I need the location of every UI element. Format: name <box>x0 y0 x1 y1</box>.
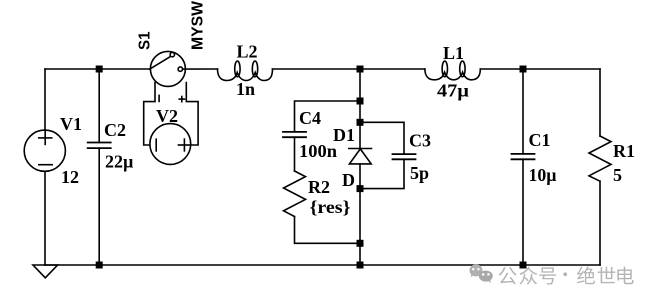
inductor L1 <box>425 69 480 80</box>
wire V1 top <box>44 69 46 130</box>
switch body pedestal <box>144 83 198 146</box>
wire bottom rail <box>45 264 600 266</box>
svg-text:{res}: {res} <box>310 197 351 217</box>
wire C4 branch top <box>295 101 361 132</box>
svg-text:V1: V1 <box>60 114 82 134</box>
capacitor C4 <box>283 132 306 137</box>
switch plus pin mark <box>179 98 184 100</box>
svg-text:C4: C4 <box>299 108 321 128</box>
wire R1 bottom <box>599 181 601 265</box>
inductor L2 <box>218 69 273 81</box>
ground <box>33 265 58 278</box>
svg-text:D: D <box>342 170 355 190</box>
svg-text:MYSW: MYSW <box>190 0 207 50</box>
svg-text:R2: R2 <box>308 177 330 197</box>
svg-text:V2: V2 <box>156 106 178 126</box>
svg-text:5p: 5p <box>410 163 429 183</box>
switch S1 <box>150 51 185 86</box>
svg-text:12: 12 <box>61 167 79 187</box>
svg-text:5: 5 <box>613 165 622 185</box>
wire C3 bottom branch <box>360 159 404 188</box>
svg-text:22µ: 22µ <box>105 152 134 172</box>
voltage source V1 <box>24 130 65 171</box>
wire C1 bottom <box>522 159 524 265</box>
svg-text:L1: L1 <box>443 43 464 63</box>
wire L1 to right corner <box>480 68 600 70</box>
wire mid vertical lower <box>359 164 361 265</box>
diode D1 <box>349 148 372 150</box>
switch minus pin mark <box>158 95 160 101</box>
wire R2 bottom branch <box>295 217 361 244</box>
svg-text:R1: R1 <box>613 141 635 161</box>
svg-text:47µ: 47µ <box>437 81 470 101</box>
capacitor C1 <box>512 154 535 159</box>
wire top rail left <box>45 68 150 70</box>
svg-text:1n: 1n <box>236 79 255 99</box>
wire C1 top <box>522 69 524 154</box>
svg-text:L2: L2 <box>237 42 258 62</box>
svg-text:C1: C1 <box>529 130 551 150</box>
svg-text:100n: 100n <box>299 141 337 161</box>
wire C4 to R2 <box>294 137 296 171</box>
svg-text:S1: S1 <box>137 31 154 50</box>
wire V1 bottom <box>44 172 46 265</box>
svg-text:10µ: 10µ <box>529 165 558 185</box>
svg-text:D1: D1 <box>333 125 355 145</box>
wire switch to L2 <box>183 68 218 70</box>
wire mid vertical upper <box>359 69 361 148</box>
wire C2 bottom <box>98 148 100 265</box>
wire L2 to L1 <box>273 68 425 70</box>
wire right drop to R1 <box>599 69 601 136</box>
resistor R2 <box>284 171 306 217</box>
watermark wechat icon <box>469 264 482 277</box>
svg-text:C3: C3 <box>409 131 431 151</box>
capacitor C3 <box>393 154 416 159</box>
watermark middle dot <box>563 272 567 276</box>
wire C3 top branch <box>360 122 404 154</box>
voltage source V2 <box>150 124 191 165</box>
capacitor C2 <box>88 143 111 149</box>
svg-text:C2: C2 <box>104 120 126 140</box>
resistor R1 <box>589 136 611 181</box>
wire C2 top <box>98 69 100 142</box>
watermark CJK text <box>499 266 634 284</box>
